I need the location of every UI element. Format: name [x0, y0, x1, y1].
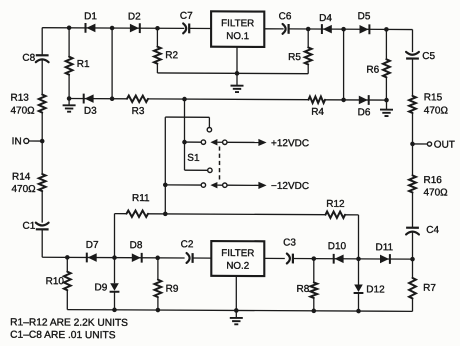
- svg-text:C1: C1: [23, 221, 36, 232]
- svg-text:C6: C6: [279, 11, 292, 22]
- svg-text:NO.1: NO.1: [226, 31, 249, 42]
- wire S1 down to pole2 upper contact: [185, 142, 208, 170]
- svg-text:R3: R3: [132, 106, 145, 117]
- node D11 rail junction: [410, 257, 415, 262]
- ground under R1-D3 junction: [63, 98, 76, 111]
- svg-text:D5: D5: [358, 11, 371, 22]
- label R8: [297, 284, 310, 295]
- resistor R7: [409, 278, 416, 299]
- svg-text:FILTER: FILTER: [221, 248, 254, 259]
- resistor R1: [66, 28, 73, 99]
- wire top bus right section: [264, 28, 412, 31]
- svg-text:R2: R2: [165, 50, 178, 61]
- svg-text:C1–C8 ARE .01 UNITS: C1–C8 ARE .01 UNITS: [10, 330, 116, 342]
- contact pole2 common: [223, 183, 227, 187]
- wire left rail: [41, 28, 43, 258]
- ground filter2: [230, 310, 243, 324]
- label FILTER NO.2: [221, 248, 254, 272]
- svg-text:C2: C2: [181, 239, 194, 250]
- svg-text:D1: D1: [84, 11, 97, 22]
- svg-text:C8: C8: [22, 53, 35, 64]
- label C6: [279, 11, 292, 22]
- resistor R8: [310, 259, 317, 311]
- wire filter1 bottom pin: [236, 47, 238, 74]
- label D12: [366, 284, 385, 295]
- wire pole2 to left contact: [165, 184, 201, 186]
- label R4: [311, 107, 324, 118]
- svg-text:R7: R7: [423, 283, 436, 294]
- svg-text:R4: R4: [311, 107, 324, 118]
- node C3-D10 junction: [312, 256, 317, 261]
- svg-text:C5: C5: [422, 51, 435, 62]
- svg-text:R11: R11: [132, 193, 150, 204]
- ground filter1: [231, 73, 244, 92]
- svg-text:IN: IN: [12, 136, 22, 147]
- label C2: [181, 239, 194, 250]
- diode D10: [334, 254, 344, 264]
- wire right rail: [412, 30, 414, 312]
- resistor R4: [309, 97, 326, 103]
- resistor R11: [127, 210, 149, 217]
- node R9 bottom junction: [156, 308, 161, 313]
- capacitor C8: [36, 55, 49, 62]
- diode D4: [322, 24, 332, 34]
- label R5: [288, 52, 301, 63]
- node D8-C2 junction: [155, 256, 160, 261]
- diode D2: [130, 23, 140, 33]
- node D12 bottom junction: [356, 309, 361, 314]
- svg-text:D8: D8: [130, 240, 143, 251]
- svg-text:D12: D12: [366, 284, 385, 295]
- filter box U2: [211, 241, 264, 276]
- resistor R12: [326, 211, 346, 217]
- label FILTER NO.1: [221, 18, 254, 42]
- label D10: [328, 241, 347, 252]
- wire S1 riser from top bus: [184, 99, 186, 142]
- capacitor C6: [283, 24, 289, 34]
- note resistor values: [10, 317, 128, 329]
- label C4: [426, 225, 439, 236]
- resistor R6: [383, 29, 390, 100]
- label D4: [319, 13, 332, 24]
- label D2: [128, 11, 141, 22]
- svg-text:−12VDC: −12VDC: [271, 181, 309, 192]
- ground under D6-R6 junction: [380, 100, 393, 116]
- svg-text:R1–R12 ARE 2.2K UNITS: R1–R12 ARE 2.2K UNITS: [10, 317, 128, 329]
- capacitor C5: [406, 52, 419, 59]
- contact pole1 common: [223, 140, 227, 144]
- label C8: [22, 53, 35, 64]
- terminal IN: [24, 138, 42, 143]
- resistor R9: [155, 258, 162, 310]
- svg-text:R13: R13: [11, 93, 30, 104]
- svg-text:D11: D11: [375, 242, 393, 253]
- node R8 bottom junction: [312, 309, 317, 314]
- node D10-D11 junction: [356, 257, 361, 262]
- svg-text:R15: R15: [424, 92, 443, 103]
- node top-bus junction D1-D2: [110, 26, 115, 31]
- resistor R16: [409, 175, 416, 192]
- label -12VDC: [271, 181, 309, 192]
- svg-text:D10: D10: [328, 241, 347, 252]
- svg-text:470Ω: 470Ω: [424, 105, 449, 116]
- svg-text:D4: D4: [319, 13, 332, 24]
- label OUT: [434, 140, 455, 151]
- node D7-D8 junction: [112, 255, 117, 260]
- diode D12: [354, 259, 364, 311]
- capacitor C4: [406, 228, 419, 235]
- label D11: [375, 242, 393, 253]
- svg-text:C3: C3: [283, 237, 296, 248]
- svg-text:R1: R1: [77, 59, 90, 70]
- wire R11-R12 row: [115, 214, 359, 215]
- diode D7: [87, 253, 97, 263]
- wiper pole2: [210, 182, 222, 188]
- wire D3-R3 bus: [69, 98, 386, 100]
- label D3: [84, 106, 97, 117]
- node top-bus junction C7-R2: [155, 26, 160, 31]
- contact pole2 left: [201, 183, 205, 187]
- wire bottom bus: [67, 310, 412, 312]
- svg-text:D2: D2: [128, 11, 141, 22]
- label D1: [84, 11, 97, 22]
- label R7: [423, 283, 436, 294]
- svg-text:R16: R16: [424, 175, 443, 186]
- svg-text:470Ω: 470Ω: [11, 106, 36, 117]
- node filter2 ground junction: [234, 308, 239, 313]
- node OUT junction: [410, 142, 415, 147]
- svg-text:S1: S1: [187, 153, 200, 164]
- svg-text:C7: C7: [180, 11, 193, 22]
- svg-text:R8: R8: [297, 284, 310, 295]
- node R10 top junction: [65, 255, 70, 260]
- svg-text:R12: R12: [326, 199, 345, 210]
- diode D9: [110, 258, 120, 310]
- label R16 value: [424, 175, 449, 199]
- svg-text:R9: R9: [166, 284, 179, 295]
- svg-text:C4: C4: [426, 225, 439, 236]
- label R2: [165, 50, 178, 61]
- node top-bus junction R1: [67, 25, 72, 30]
- svg-text:D9: D9: [95, 282, 108, 293]
- label C3: [283, 237, 296, 248]
- node filter1 ground junction: [235, 71, 240, 76]
- wire riser row to D10-D11: [358, 215, 360, 259]
- node pole2 left junction: [163, 183, 168, 188]
- label C7: [180, 11, 193, 22]
- label R1: [77, 59, 90, 70]
- diode D8: [132, 253, 142, 263]
- label D6: [358, 107, 371, 118]
- svg-text:470Ω: 470Ω: [424, 187, 449, 198]
- label +12VDC: [271, 138, 309, 149]
- contact pole1 upper: [207, 127, 211, 131]
- svg-text:R14: R14: [12, 172, 31, 183]
- wire filter2 right to rail: [264, 257, 412, 260]
- resistor R13: [39, 95, 46, 113]
- label C1: [23, 221, 36, 232]
- label R6: [366, 65, 379, 76]
- resistor R3: [127, 96, 148, 103]
- diode D11: [380, 254, 390, 264]
- node S1 riser-wiper junction: [182, 140, 187, 145]
- label S1: [187, 153, 200, 164]
- label IN: [12, 136, 22, 147]
- node S1 netB row junction: [163, 212, 168, 217]
- svg-text:NO.2: NO.2: [226, 261, 249, 272]
- svg-text:OUT: OUT: [434, 140, 455, 151]
- node R4 riser junction: [341, 98, 346, 103]
- svg-text:FILTER: FILTER: [221, 18, 254, 29]
- contact pole1 left: [201, 140, 205, 144]
- label D5: [358, 11, 371, 22]
- wire S1 to pole1 left contact: [185, 141, 202, 143]
- node top-bus junction C6-R5: [306, 27, 311, 32]
- wire riser D4-D5 to R4 row: [343, 29, 345, 100]
- resistor R15: [409, 96, 416, 113]
- label R3: [132, 106, 145, 117]
- wire riser D1-D2 to D3 row: [111, 28, 113, 99]
- label R15 value: [424, 92, 449, 116]
- svg-text:D6: D6: [358, 107, 371, 118]
- svg-text:470Ω: 470Ω: [12, 184, 37, 195]
- svg-text:R10: R10: [46, 276, 65, 287]
- label R13 value: [11, 93, 36, 117]
- wire to +12VDC: [227, 139, 267, 146]
- wire filter2 bottom pin: [235, 276, 237, 311]
- wire to -12VDC: [227, 182, 267, 189]
- wire filter1 sub-bus: [157, 72, 308, 75]
- label R10: [46, 276, 65, 287]
- diode D3: [84, 94, 94, 104]
- wire riser row to D7-D8: [114, 214, 116, 258]
- wire top bus left section: [42, 27, 211, 30]
- filter box U1: [211, 11, 264, 47]
- node S1 riser junction: [182, 97, 187, 102]
- diode D5: [360, 24, 370, 34]
- label D9: [95, 282, 108, 293]
- capacitor C2: [187, 253, 193, 263]
- wire left rail corner to filter2: [42, 256, 211, 259]
- terminal OUT: [413, 142, 432, 146]
- node D9 bottom junction: [112, 308, 117, 313]
- wiper pole1: [210, 139, 222, 145]
- wire S1 gang dashed link: [219, 146, 221, 181]
- label C5: [422, 51, 435, 62]
- node R1-D3 junction: [67, 96, 72, 101]
- wire S1 net-B vertical: [164, 117, 166, 214]
- svg-text:D3: D3: [84, 106, 97, 117]
- node IN junction: [40, 139, 45, 144]
- contact pole2 upper: [208, 168, 212, 172]
- node top-bus junction D4-D5: [341, 27, 346, 32]
- capacitor C1: [36, 223, 49, 230]
- resistor R5: [305, 29, 312, 74]
- label R11: [132, 193, 150, 204]
- label R14 value: [12, 172, 37, 195]
- resistor R14: [39, 174, 46, 191]
- svg-text:+12VDC: +12VDC: [271, 138, 309, 149]
- resistor R10: [64, 257, 71, 309]
- resistor R2: [154, 28, 161, 73]
- node top-bus junction R6: [384, 27, 389, 32]
- node D6-R6 junction: [384, 98, 389, 103]
- svg-text:R5: R5: [288, 52, 301, 63]
- label D7: [86, 240, 99, 251]
- svg-text:D7: D7: [86, 240, 99, 251]
- svg-text:R6: R6: [366, 65, 379, 76]
- label R9: [166, 284, 179, 295]
- diode D6: [359, 95, 369, 105]
- label R12: [326, 199, 345, 210]
- capacitor C3: [287, 254, 293, 264]
- note capacitor values: [10, 330, 116, 342]
- label D8: [130, 240, 143, 251]
- wire S1 bracket to pole1 upper contact: [165, 117, 209, 127]
- node D3 riser junction: [110, 96, 115, 101]
- capacitor C7: [183, 23, 189, 33]
- diode D1: [86, 23, 96, 33]
